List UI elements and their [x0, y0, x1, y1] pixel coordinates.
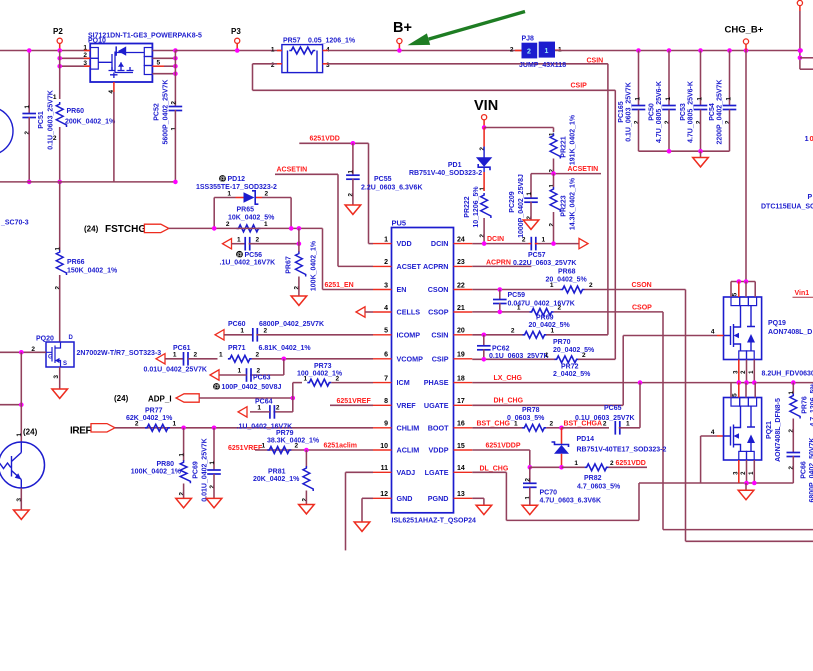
svg-text:CHLIM: CHLIM [397, 423, 420, 432]
svg-text:PU5: PU5 [392, 219, 407, 228]
svg-text:PR82: PR82 [584, 475, 602, 482]
junction PC59 bottom [498, 310, 503, 315]
svg-text:2: 2 [788, 429, 795, 433]
svg-text:2: 2 [510, 46, 514, 53]
wire VADJ stub down [346, 471, 374, 473]
svg-text:4.7_0603_5%: 4.7_0603_5% [577, 483, 621, 490]
svg-text:2.2U_0603_6.3V6K: 2.2U_0603_6.3V6K [361, 185, 423, 192]
svg-text:CSOP: CSOP [632, 305, 652, 312]
svg-text:DH_CHG: DH_CHG [494, 398, 524, 405]
wire bus PR57 to PJ8 [328, 50, 522, 52]
wire ACPRN stub [472, 265, 531, 267]
svg-text:P2: P2 [53, 27, 63, 36]
svg-text:P: P [808, 194, 813, 201]
capacitor PC69 [213, 428, 215, 470]
wire bus PJ8 to right [555, 50, 801, 52]
svg-text:2: 2 [522, 236, 526, 243]
diode PD12 [219, 175, 226, 182]
resistor PR81 [305, 450, 307, 467]
svg-text:10_1206_5%: 10_1206_5% [473, 186, 480, 228]
svg-text:0.1U_0603_25V7K: 0.1U_0603_25V7K [575, 415, 635, 422]
svg-text:(24): (24) [23, 428, 38, 437]
svg-text:PR77: PR77 [145, 408, 163, 415]
svg-text:1: 1 [542, 236, 546, 243]
svg-text:1: 1 [526, 192, 533, 196]
chip pin 21 CSOP [454, 311, 473, 313]
capacitor PC209 [530, 174, 532, 199]
svg-text:191K_0402_1%: 191K_0402_1% [570, 114, 577, 165]
junction PR81 [304, 448, 309, 453]
svg-text:2: 2 [194, 352, 198, 359]
svg-text:2: 2 [256, 236, 260, 243]
svg-text:1: 1 [635, 97, 642, 101]
junction PC63 [282, 357, 287, 362]
svg-text:JUMP_43X118: JUMP_43X118 [519, 62, 566, 69]
svg-text:2: 2 [256, 352, 260, 359]
svg-text:4.7U_0805_25V6-K: 4.7U_0805_25V6-K [656, 81, 663, 143]
resistor PR72 [555, 356, 579, 363]
junction right port [798, 48, 803, 53]
svg-text:PC53: PC53 [680, 103, 687, 121]
svg-text:2: 2 [511, 328, 515, 335]
svg-text:2: 2 [725, 120, 732, 124]
svg-text:0.1U_0603_25V7K: 0.1U_0603_25V7K [626, 82, 633, 142]
wire PQ10 pin2 row [60, 57, 91, 59]
svg-text:2: 2 [301, 498, 308, 502]
resistor PR67 [298, 228, 300, 252]
svg-text:PR73: PR73 [314, 363, 332, 370]
svg-text:1: 1 [550, 282, 554, 289]
svg-text:5600P_0402_25V7K: 5600P_0402_25V7K [163, 79, 170, 144]
chip pin 2 ACSET [373, 265, 392, 267]
capacitor PC50 [668, 51, 670, 106]
svg-text:PC63: PC63 [253, 375, 271, 382]
svg-text:RB751V-40_SOD323-2: RB751V-40_SOD323-2 [409, 170, 482, 177]
svg-text:2: 2 [384, 259, 388, 266]
svg-text:0.1U_0603_25V7K: 0.1U_0603_25V7K [48, 90, 55, 150]
svg-text:2: 2 [264, 328, 268, 335]
svg-text:PC70: PC70 [540, 490, 558, 497]
svg-text:10K_0402_5%: 10K_0402_5% [228, 215, 275, 222]
chip pin 5 ICOMP [373, 334, 392, 336]
svg-text:PC65: PC65 [604, 405, 622, 412]
svg-text:6251VDD: 6251VDD [616, 460, 646, 467]
svg-text:14.3K_0402_1%: 14.3K_0402_1% [569, 177, 576, 230]
chip pin 1 VDD [373, 243, 392, 245]
svg-text:6.81K_0402_1%: 6.81K_0402_1% [259, 345, 312, 352]
svg-text:100K_0402_1%: 100K_0402_1% [311, 240, 318, 291]
svg-text:0: 0 [810, 134, 813, 143]
svg-text:PR70: PR70 [553, 339, 571, 346]
resistor PR69 [530, 309, 554, 316]
wire GND ground [362, 497, 373, 499]
svg-text:VDDP: VDDP [429, 446, 449, 455]
transistor PQ19 AON7408L [724, 297, 762, 360]
junction PC62 top [482, 333, 487, 338]
svg-text:1: 1 [237, 236, 241, 243]
ground cap bank [700, 151, 702, 157]
junction P2 bus [57, 48, 62, 53]
chip pin 17 UGATE [454, 404, 473, 406]
diode PD14 [561, 428, 563, 445]
svg-text:PC59: PC59 [508, 292, 526, 299]
junction PC69 [212, 426, 217, 431]
ground PQ20 [59, 367, 61, 389]
svg-text:VREF: VREF [397, 401, 417, 410]
wire VIN to PR221 [484, 127, 553, 129]
capacitor PC54 [729, 51, 731, 106]
svg-text:CSOP: CSOP [428, 308, 449, 317]
svg-text:PC165: PC165 [618, 101, 625, 123]
svg-text:ICM: ICM [397, 378, 410, 387]
transistor circle bottom left [0, 442, 45, 488]
svg-text:1: 1 [257, 405, 261, 412]
svg-text:1: 1 [574, 460, 578, 467]
svg-text:7: 7 [384, 375, 388, 382]
transistor PQ21 AON7408L [724, 398, 762, 461]
chip pin 4 CELLS [373, 311, 392, 313]
svg-text:B+: B+ [393, 20, 412, 36]
svg-text:VCOMP: VCOMP [397, 354, 424, 363]
svg-text:15: 15 [457, 443, 465, 450]
svg-text:1: 1 [348, 170, 355, 174]
wire PQ21 source pins to gnd bus [738, 460, 740, 483]
svg-text:CSON: CSON [428, 285, 449, 294]
svg-text:PR79: PR79 [276, 430, 294, 437]
svg-text:PQ21: PQ21 [766, 421, 773, 439]
svg-text:LGATE: LGATE [425, 468, 449, 477]
svg-text:18: 18 [457, 375, 465, 382]
svg-text:1: 1 [24, 105, 31, 109]
wire CSIN vertical [607, 64, 609, 335]
resistor PR70 [523, 331, 547, 338]
svg-text:2N7002W-T/R7_SOT323-3: 2N7002W-T/R7_SOT323-3 [77, 350, 162, 357]
svg-text:EN: EN [397, 285, 407, 294]
junction boot cap column [638, 380, 643, 385]
svg-text:6800P_0402_50V7K: 6800P_0402_50V7K [809, 437, 813, 502]
wire CSIP vertical [614, 90, 616, 359]
svg-text:1: 1 [805, 134, 809, 143]
junction PR80 [181, 426, 186, 431]
svg-text:1: 1 [173, 352, 177, 359]
svg-text:150K_0402_1%: 150K_0402_1% [67, 268, 118, 275]
svg-text:2: 2 [271, 62, 275, 69]
svg-text:1: 1 [240, 328, 244, 335]
svg-text:10: 10 [380, 443, 388, 450]
svg-text:P3: P3 [231, 27, 241, 36]
chip pin 9 CHLIM [373, 427, 392, 429]
svg-text:PR69: PR69 [536, 315, 554, 322]
svg-text:2: 2 [634, 120, 641, 124]
junction PC62 bottom [482, 357, 487, 362]
chip pin 13 PGND [454, 497, 473, 499]
svg-text:PD1: PD1 [448, 162, 462, 169]
svg-text:ACPRN: ACPRN [423, 262, 449, 271]
wire base column [20, 352, 22, 442]
svg-text:6251_EN: 6251_EN [325, 282, 354, 289]
wire main B+ bus top [0, 50, 91, 52]
capacitor PC59 [499, 290, 501, 300]
svg-text:6251VDD: 6251VDD [310, 136, 340, 143]
wire CELLS arrow [356, 307, 365, 317]
capacitor PC64 [292, 398, 294, 412]
svg-text:BST_CHG: BST_CHG [477, 420, 511, 427]
wire right edge stub2 [800, 68, 813, 70]
svg-text:23: 23 [457, 259, 465, 266]
wire CSIN row [472, 334, 523, 336]
svg-text:@: @ [213, 385, 219, 391]
wire CSIP sense loop [253, 63, 278, 65]
svg-text:1: 1 [551, 328, 555, 335]
svg-text:ACSET: ACSET [397, 262, 422, 271]
svg-text:2: 2 [558, 305, 562, 312]
svg-text:2: 2 [527, 49, 531, 56]
port top right [797, 0, 802, 5]
svg-text:ACSETIN: ACSETIN [568, 166, 599, 173]
chip pin 12 GND [373, 497, 392, 499]
svg-text:BOOT: BOOT [428, 423, 449, 432]
svg-text:LX_CHG: LX_CHG [494, 375, 523, 382]
wire CHG_B+ column to PQ19 [745, 51, 747, 282]
wire PQ19 gate pin4 [623, 335, 717, 337]
svg-text:CSON: CSON [632, 282, 652, 289]
svg-text:PC61: PC61 [173, 345, 191, 352]
svg-text:2: 2 [610, 460, 614, 467]
svg-text:PR221: PR221 [561, 136, 568, 158]
capacitor PC53 [700, 51, 702, 106]
svg-text:PGND: PGND [428, 494, 449, 503]
svg-text:12: 12 [380, 491, 388, 498]
svg-text:PR65: PR65 [237, 207, 255, 214]
svg-text:9: 9 [384, 421, 388, 428]
chip pin 3 EN [373, 289, 392, 291]
svg-text:22: 22 [457, 282, 465, 289]
svg-text:PR57: PR57 [283, 38, 301, 45]
svg-text:6251VDDP: 6251VDDP [486, 442, 521, 449]
svg-text:2: 2 [336, 375, 340, 382]
svg-text:PR78: PR78 [522, 407, 540, 414]
chip pin 15 VDDP [454, 449, 473, 451]
svg-text:D: D [69, 335, 74, 341]
svg-text:CSIP: CSIP [432, 354, 449, 363]
svg-text:CSIP: CSIP [571, 82, 588, 89]
svg-text:0.01U_0402_25V7K: 0.01U_0402_25V7K [144, 367, 207, 374]
svg-text:2_0402_5%: 2_0402_5% [553, 371, 591, 378]
svg-text:6251VREF: 6251VREF [337, 398, 372, 405]
svg-text:1: 1 [304, 375, 308, 382]
wire bottom bus left [0, 181, 176, 183]
svg-text:1: 1 [665, 97, 672, 101]
svg-text:0.01U_0402_25V7K: 0.01U_0402_25V7K [202, 438, 209, 501]
svg-text:4.7U_0805_25V6-K: 4.7U_0805_25V6-K [688, 81, 695, 143]
svg-text:1: 1 [173, 420, 177, 427]
svg-text:PC60: PC60 [228, 321, 246, 328]
svg-text:VADJ: VADJ [397, 468, 416, 477]
svg-text:(24): (24) [84, 225, 99, 234]
wire 6251VDDP row [472, 449, 530, 451]
chip pin 20 CSIN [454, 334, 473, 336]
junction PC55 top [351, 141, 356, 146]
svg-text:RB751V-40TE17_SOD323-2: RB751V-40TE17_SOD323-2 [577, 447, 667, 454]
svg-text:1: 1 [55, 247, 62, 251]
svg-text:CSIN: CSIN [431, 330, 448, 339]
wire PGND ground [472, 497, 484, 499]
svg-text:@: @ [236, 253, 242, 259]
wire PR60 to bottom bus [59, 127, 61, 182]
svg-text:1: 1 [726, 97, 733, 101]
capacitor PC61 [156, 354, 165, 364]
svg-text:1: 1 [545, 352, 549, 359]
svg-text:2: 2 [479, 147, 486, 151]
junction VIN [482, 125, 487, 130]
wire CSIN from PR57 [328, 63, 608, 65]
transistor circle cut at left edge [0, 107, 13, 155]
svg-text:38.3K_0402_1%: 38.3K_0402_1% [267, 438, 320, 445]
svg-text:6: 6 [384, 352, 388, 359]
wire PQ10 pin3 row [60, 65, 91, 67]
svg-text:2: 2 [525, 478, 532, 482]
svg-text:PR60: PR60 [67, 108, 85, 115]
svg-text:20K_0402_1%: 20K_0402_1% [253, 476, 300, 483]
svg-text:0.05_1206_1%: 0.05_1206_1% [308, 38, 356, 45]
chip pin 14 LGATE [454, 471, 473, 473]
svg-text:PR80: PR80 [156, 461, 174, 468]
capacitor PC56 [223, 239, 232, 249]
wire ICOMP row PC60 [215, 330, 224, 340]
svg-text:1: 1 [517, 305, 521, 312]
svg-text:PR72: PR72 [561, 363, 579, 370]
svg-text:ACLIM: ACLIM [397, 446, 420, 455]
junction PC56-PR67 [297, 241, 302, 246]
svg-text:DTC115EUA_SO: DTC115EUA_SO [761, 204, 813, 211]
capacitor PC62 [483, 335, 485, 346]
chip pin 19 CSIP [454, 358, 473, 360]
green annotation arrow [429, 12, 525, 40]
svg-text:_SC70-3: _SC70-3 [0, 220, 29, 227]
wire LX_CHG phase row [472, 382, 813, 384]
svg-text:1: 1 [545, 48, 549, 55]
wire right edge stub1 [800, 57, 813, 59]
svg-text:PC62: PC62 [492, 345, 510, 352]
wire PQ10 right rows to PC52 column [152, 50, 176, 52]
resistor PR80 [183, 428, 185, 461]
svg-text:DCIN: DCIN [487, 236, 504, 243]
svg-text:1: 1 [179, 453, 186, 457]
svg-text:100K_0402_1%: 100K_0402_1% [131, 469, 182, 476]
chip pin 16 BOOT [454, 427, 473, 429]
svg-text:ISL6251AHAZ-T_QSOP24: ISL6251AHAZ-T_QSOP24 [392, 518, 477, 525]
svg-text:1000P_0402_25V8J: 1000P_0402_25V8J [518, 174, 525, 238]
svg-text:19: 19 [457, 352, 465, 359]
offpage arrow DCIN [579, 238, 588, 248]
resistor PR66 [59, 182, 61, 250]
capacitor PC66 [787, 452, 801, 454]
wire BST_CHG row [472, 427, 522, 429]
svg-text:4.7U_0603_6.3V6K: 4.7U_0603_6.3V6K [540, 498, 602, 505]
svg-text:1: 1 [384, 236, 388, 243]
wire PQ19 top drain bus [731, 281, 755, 283]
svg-text:2: 2 [55, 286, 62, 290]
svg-text:1: 1 [514, 421, 518, 428]
wire boot cap to phase [639, 383, 641, 428]
svg-text:GND: GND [397, 494, 413, 503]
capacitor PC55 [352, 143, 354, 175]
wire CSOP row [472, 311, 530, 313]
svg-text:1: 1 [170, 127, 177, 131]
svg-text:PC54: PC54 [709, 103, 716, 121]
chip pin 10 ACLIM [373, 449, 392, 451]
chip pin 8 VREF [373, 404, 392, 406]
svg-text:2: 2 [550, 421, 554, 428]
svg-text:6800P_0402_25V7K: 6800P_0402_25V7K [259, 321, 324, 328]
svg-text:4: 4 [711, 429, 715, 436]
wire DCIN row [472, 243, 528, 245]
chip pin 24 DCIN [454, 243, 473, 245]
capacitor PC165 [638, 51, 640, 106]
svg-text:2: 2 [696, 120, 703, 124]
svg-text:6251VREF: 6251VREF [228, 445, 263, 452]
svg-text:6251aclim: 6251aclim [324, 443, 357, 450]
svg-text:21: 21 [457, 305, 465, 312]
wire CSOP vertical and bottom [662, 312, 664, 530]
svg-text:1: 1 [219, 352, 223, 359]
chip pin 18 PHASE [454, 382, 473, 384]
resistor PR73 [292, 383, 294, 398]
svg-text:@: @ [219, 177, 225, 183]
chip pin 22 CSON [454, 289, 473, 291]
svg-text:20_0402_5%: 20_0402_5% [553, 347, 595, 354]
svg-text:100P_0402_50V8J: 100P_0402_50V8J [222, 384, 282, 391]
wire DH_CHG row [472, 404, 623, 406]
wire PQ20 gate [0, 351, 46, 353]
svg-text:PC57: PC57 [528, 252, 546, 259]
svg-text:AON7408L_DFN8-5: AON7408L_DFN8-5 [775, 398, 782, 462]
svg-text:FSTCHG: FSTCHG [105, 224, 146, 235]
wire left net to base column [0, 404, 21, 406]
svg-text:UGATE: UGATE [424, 401, 449, 410]
svg-text:(24): (24) [114, 394, 129, 403]
svg-text:AON7408L_D: AON7408L_D [768, 329, 812, 336]
svg-text:PC55: PC55 [374, 176, 392, 183]
svg-text:PR222: PR222 [464, 196, 471, 218]
svg-text:2: 2 [295, 443, 299, 450]
svg-text:3: 3 [16, 498, 23, 502]
svg-text:17: 17 [457, 398, 465, 405]
wire CSON row [472, 289, 560, 291]
svg-text:4: 4 [384, 305, 388, 312]
svg-text:PC209: PC209 [509, 191, 516, 213]
svg-text:8.2UH_FDV0630: 8.2UH_FDV0630 [762, 371, 813, 378]
svg-text:.1U_0402_16V7K: .1U_0402_16V7K [220, 260, 276, 267]
svg-text:2: 2 [170, 101, 177, 105]
capacitor PC63 [283, 359, 285, 375]
svg-text:PR71: PR71 [228, 345, 246, 352]
wire CSON vertical and bottom [685, 290, 687, 542]
svg-text:ACPRN: ACPRN [486, 260, 511, 267]
svg-text:11: 11 [381, 465, 389, 472]
wire CSIP row [472, 358, 555, 360]
wire P2 column [59, 51, 61, 100]
svg-text:1: 1 [262, 443, 266, 450]
svg-text:3: 3 [384, 282, 388, 289]
svg-text:5: 5 [732, 393, 739, 397]
wire PQ19 source pins to phase [738, 360, 740, 383]
svg-text:PQ19: PQ19 [768, 320, 786, 327]
junction PC59 top [498, 287, 503, 292]
wire bus PQ10 to PR57 [175, 50, 282, 52]
junction BST_CHGA [559, 426, 564, 431]
svg-text:PR76: PR76 [802, 396, 809, 414]
